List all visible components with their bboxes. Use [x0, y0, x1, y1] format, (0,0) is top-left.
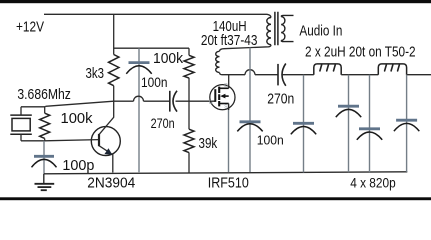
- svg-text:39k: 39k: [199, 135, 218, 152]
- wire 3k3 bottom to collector node: [113, 86, 115, 102]
- mosfet U1 source stub: [219, 103, 229, 105]
- transformer T1 left winding: [267, 18, 271, 45]
- border bottom: [0, 197, 431, 200]
- capacitor C1 100n plate: [129, 61, 150, 64]
- capacitor C7 820p lead: [348, 75, 350, 173]
- wire audio in top stub: [281, 15, 293, 16]
- svg-text:270n: 270n: [151, 116, 175, 131]
- svg-text:4 x 820p: 4 x 820p: [350, 175, 396, 190]
- resistor R3 100k: [40, 113, 50, 138]
- crystal X1 bottom plate: [10, 133, 32, 135]
- mosfet U1 drain stub: [219, 87, 229, 89]
- mosfet U1 channel bar: [218, 87, 220, 107]
- wire output rail left: [222, 74, 245, 76]
- resistor R2 100k: [184, 55, 194, 78]
- wire base: [45, 140, 99, 141]
- crystal X1 top plate: [10, 114, 32, 116]
- ground: [43, 174, 45, 184]
- capacitor C9 820p lead: [406, 75, 408, 172]
- resistor R1 3k3: [108, 55, 118, 86]
- capacitor C6 820p arc: [291, 126, 316, 134]
- capacitor C2 100p plate: [34, 155, 54, 158]
- wire drain vertical: [228, 75, 230, 89]
- mosfet U1 arrow: [224, 95, 229, 97]
- wire source vertical: [228, 104, 230, 111]
- inductor L2: [314, 64, 341, 75]
- wire crystal top: [21, 106, 46, 108]
- svg-text:Audio In: Audio In: [299, 23, 342, 39]
- wire transformer bottom to choke: [220, 45, 272, 52]
- capacitor C5 100n arc: [237, 124, 262, 132]
- wire audio in bottom stub: [281, 41, 293, 42]
- svg-text:100k: 100k: [153, 51, 184, 67]
- capacitor C7 820p arc: [336, 109, 361, 117]
- svg-text:100n: 100n: [141, 75, 168, 90]
- transformer T1 core: [275, 12, 278, 46]
- wire output rail hump over 100n lead: [245, 70, 255, 75]
- svg-text:D: D: [224, 83, 228, 89]
- resistor R2 100k lead: [188, 48, 190, 55]
- svg-text:+12V: +12V: [16, 19, 44, 35]
- transistor Q1 emitter arrow: [104, 148, 112, 155]
- wire ground rail: [44, 172, 408, 174]
- wire crystal node to collector node: [46, 101, 114, 106]
- capacitor C3 270n curved plate: [173, 91, 177, 112]
- svg-text:270n: 270n: [267, 92, 294, 108]
- wire antenna stub: [407, 74, 431, 76]
- capacitor C5 100n plate: [240, 120, 261, 123]
- border top: [0, 0, 431, 3]
- capacitor C6 820p lead: [303, 75, 305, 173]
- wire 100k bottom to gate node: [188, 78, 190, 129]
- svg-text:100n: 100n: [257, 134, 284, 148]
- crystal X1 bottom lead: [20, 134, 22, 141]
- wire 100k left bottom: [44, 139, 46, 141]
- wire bias rail y=48: [114, 47, 189, 49]
- transistor Q1 emitter: [99, 146, 113, 173]
- capacitor C4 270n curved plate: [282, 64, 286, 86]
- svg-text:3k3: 3k3: [86, 65, 105, 82]
- transistor Q1 base bar: [98, 134, 100, 146]
- capacitor C8 820p arc: [357, 132, 382, 140]
- svg-text:100k: 100k: [61, 111, 94, 127]
- svg-text:G: G: [209, 100, 213, 106]
- transformer T1 right winding: [281, 17, 285, 41]
- svg-text:2 x 2uH 20t on T50-2: 2 x 2uH 20t on T50-2: [305, 44, 416, 60]
- svg-text:20t ft37-43: 20t ft37-43: [201, 32, 258, 49]
- inductor L2 loops: [320, 65, 335, 71]
- wire output rail to cap: [255, 74, 278, 76]
- wire supply column x=113.7 top: [113, 14, 115, 54]
- wire gate line to cap: [144, 100, 170, 102]
- capacitor C8 820p lead: [369, 75, 371, 172]
- capacitor C6 820p plate: [293, 122, 314, 125]
- transistor Q1 2N3904 circle: [91, 127, 120, 156]
- capacitor C4 270n plate: [277, 64, 279, 86]
- capacitor C7 820p plate: [338, 105, 359, 108]
- wire choke bottom to rail: [220, 73, 223, 75]
- inductor L3 loops: [385, 65, 400, 71]
- resistor R3 100k left lead top: [44, 106, 46, 113]
- crystal X1 top lead: [20, 107, 22, 115]
- mosfet U1 gate bar: [214, 89, 216, 102]
- wire crystal bottom: [21, 140, 45, 142]
- capacitor C2 100p lead: [43, 141, 45, 174]
- wire gate line hump over 100n lead: [134, 96, 144, 101]
- capacitor C9 820p plate: [396, 119, 417, 122]
- inductor L3: [378, 64, 406, 75]
- wire gate line right: [176, 100, 216, 102]
- wire gate line left: [114, 100, 134, 102]
- capacitor C8 820p plate: [359, 127, 380, 130]
- mosfet U1 IRF510 circle: [210, 85, 235, 110]
- svg-text:3.686Mhz: 3.686Mhz: [17, 86, 71, 103]
- wire output rail after cap: [282, 74, 314, 76]
- svg-text:100p: 100p: [62, 158, 94, 174]
- capacitor C2 100p arc: [32, 159, 57, 167]
- wire rail between inductors: [341, 74, 378, 76]
- capacitor C1 100n arc: [126, 66, 151, 74]
- wire 39k bottom: [188, 153, 190, 173]
- capacitor C9 820p arc: [394, 123, 419, 131]
- svg-text:2N3904: 2N3904: [87, 176, 135, 192]
- transistor Q1 collector: [99, 101, 114, 134]
- svg-text:IRF510: IRF510: [208, 176, 249, 192]
- capacitor C5 100n lead: [249, 48, 251, 173]
- resistor R4 39k: [184, 129, 194, 152]
- capacitor C1 100n lead: [138, 48, 140, 172]
- inductor L1 choke 140uH: [216, 51, 220, 72]
- wire +12V rail: [44, 14, 271, 17]
- capacitor C3 270n plate: [169, 91, 171, 112]
- crystal X1 body: [12, 118, 30, 130]
